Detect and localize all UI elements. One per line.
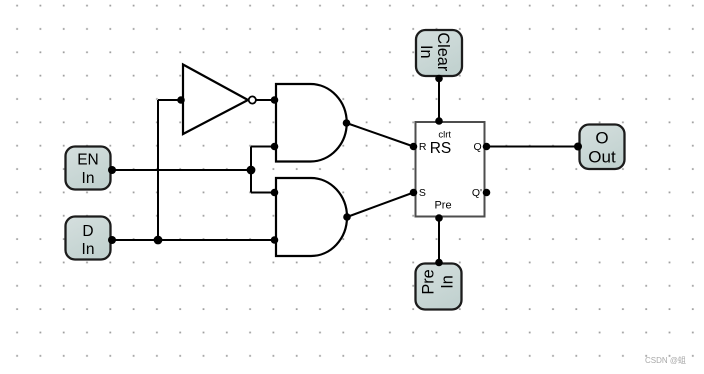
svg-text:Pre: Pre bbox=[420, 269, 438, 294]
svg-text:D: D bbox=[82, 223, 93, 240]
svg-text:CSDN @蛆: CSDN @蛆 bbox=[645, 355, 686, 365]
svg-text:Q': Q' bbox=[472, 187, 482, 199]
svg-text:EN: EN bbox=[77, 152, 99, 169]
svg-text:In: In bbox=[439, 275, 457, 289]
svg-text:Pre: Pre bbox=[434, 199, 451, 211]
svg-text:Out: Out bbox=[588, 148, 616, 167]
svg-text:Q: Q bbox=[474, 141, 482, 153]
svg-text:Clear: Clear bbox=[434, 32, 452, 71]
svg-text:O: O bbox=[595, 128, 608, 147]
svg-text:In: In bbox=[82, 241, 95, 258]
svg-text:In: In bbox=[82, 170, 95, 187]
svg-text:In: In bbox=[417, 45, 435, 59]
svg-text:S: S bbox=[419, 187, 426, 199]
svg-text:RS: RS bbox=[430, 140, 452, 157]
svg-text:R: R bbox=[419, 141, 427, 153]
svg-text:clrt: clrt bbox=[438, 129, 451, 140]
